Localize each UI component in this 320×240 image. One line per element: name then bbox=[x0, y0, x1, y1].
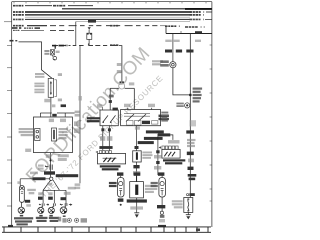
wire horn drop (bold bracket) bbox=[52, 45, 68, 49]
node with label bbox=[187, 194, 189, 196]
wire BUS7 labeled harness run (dashed with wire codes) bbox=[13, 25, 166, 27]
ground at washer switch bbox=[186, 212, 191, 219]
wire right vertical bus bbox=[189, 34, 191, 198]
wire light switch feed run bbox=[10, 40, 53, 78]
label below box bbox=[25, 149, 31, 152]
wire label CAN4 + alternator note bbox=[117, 60, 163, 73]
connector inline pair bbox=[38, 165, 52, 170]
wire harness run 2 (dashed) bbox=[53, 44, 119, 46]
wire gauge to bus bbox=[173, 68, 190, 95]
wire from light switch down bbox=[50, 97, 52, 113]
connector pair bbox=[101, 128, 104, 131]
indicator bulb socket bbox=[176, 103, 189, 108]
wire corner down to regulator bbox=[119, 46, 122, 83]
connector inline with arrows bbox=[60, 203, 72, 206]
park lamp body L1 bbox=[20, 186, 25, 203]
wire BUS1 accessory feed bbox=[13, 5, 93, 7]
lamp L3 bbox=[38, 206, 44, 217]
horn bbox=[52, 55, 56, 60]
wire branch to flasher bbox=[75, 183, 81, 186]
ground at solenoid bbox=[134, 213, 139, 218]
ignition switch box S5 bbox=[34, 117, 73, 153]
wire main feed to park lamps bbox=[20, 178, 50, 180]
turn signal flasher lamp L5 bbox=[60, 206, 67, 217]
dimmer bracket beside switch bbox=[55, 80, 57, 97]
neutral safety switch label bbox=[87, 117, 100, 119]
wiper motor M1 bbox=[118, 178, 125, 198]
lamp captions bbox=[14, 217, 59, 226]
wire code row left bbox=[158, 133, 170, 136]
solenoid K1 bbox=[130, 182, 144, 198]
dimmer connector row bbox=[159, 146, 179, 149]
wire BUS1b charge feed bbox=[62, 8, 212, 10]
wire BUS8 bold label row bbox=[12, 27, 40, 29]
printed circuit board note bbox=[193, 88, 203, 103]
wire feeds into alternator bbox=[124, 104, 155, 110]
wiper motor feed column bbox=[154, 134, 162, 178]
wire vertical A from BUS6 bbox=[76, 20, 96, 45]
bus label GN R bbox=[78, 96, 82, 101]
wire split to park lamps bbox=[43, 177, 66, 204]
headlight dimmer switch S4 bbox=[162, 149, 180, 158]
lamp feed labels bbox=[38, 192, 52, 195]
right bus labels bbox=[186, 130, 194, 133]
wire down from ignition box bbox=[50, 153, 52, 178]
wire right horizontal run to border bbox=[166, 31, 212, 34]
wire drop to marker capsule bbox=[19, 179, 21, 186]
wire code row bbox=[99, 146, 112, 149]
wire BUS6 faint feed 2 bbox=[76, 21, 190, 23]
wire code label rows bbox=[146, 130, 164, 133]
wire vertical C main lighting drop bbox=[79, 45, 81, 183]
fuse element inside box bbox=[52, 128, 57, 141]
courtesy light switch S6 bbox=[35, 129, 40, 141]
connector ties to lamps bbox=[42, 203, 55, 205]
connector tie on left leg bbox=[109, 100, 112, 103]
wire BUS4 faint feed bbox=[25, 16, 190, 18]
wire BUS9 thin labeled run bbox=[13, 29, 75, 31]
wire BUS3 ignition feed bbox=[13, 14, 206, 16]
node junction on bus bbox=[189, 94, 191, 96]
lamp L2 front park/turn bbox=[18, 207, 24, 216]
horn button connector row bbox=[95, 151, 111, 154]
radio fuse column bbox=[133, 126, 153, 182]
wire BUS7 right step-down + labels bbox=[165, 26, 205, 34]
resistor (ballast) bbox=[87, 30, 92, 46]
alternator U2 bbox=[121, 110, 161, 126]
wire capsule to lamp bbox=[21, 202, 23, 207]
wire BUS5 lighting feed bbox=[13, 18, 212, 20]
voltage regulator U1 bbox=[100, 107, 118, 126]
node tick on harness run 2 bbox=[87, 43, 89, 45]
connector bubble bbox=[119, 83, 125, 89]
flasher caption with indicator bulbs bbox=[58, 217, 87, 223]
washer switch S7 bbox=[184, 198, 193, 213]
wire feeds at y=113 bbox=[40, 113, 74, 117]
a/c control note bbox=[159, 115, 169, 117]
wire regulator tee bbox=[110, 88, 134, 110]
wire drops from regulator bbox=[103, 126, 110, 151]
horn relay bbox=[44, 50, 59, 56]
wire gauge drop bbox=[172, 34, 174, 62]
lamp L4 bbox=[48, 206, 54, 217]
gauge (ammeter) G1 bbox=[160, 60, 176, 67]
node branch junction bbox=[50, 160, 52, 162]
horn button switch S3 bbox=[98, 154, 126, 164]
connector Y at top of resistor leg bbox=[88, 27, 91, 29]
alternator note bbox=[161, 112, 168, 122]
heater motor M2 bbox=[159, 178, 166, 198]
wire BUS2 battery feed (heavy) bbox=[13, 11, 212, 13]
main light switch S1 bbox=[34, 73, 53, 97]
wire below heater motor bbox=[161, 197, 163, 211]
